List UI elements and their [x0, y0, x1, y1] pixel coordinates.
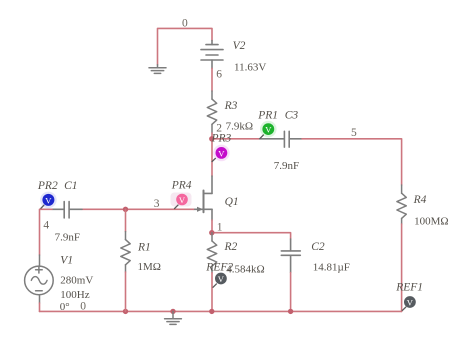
svg-text:7.9kΩ: 7.9kΩ [226, 120, 253, 132]
probe PR3 [212, 145, 230, 162]
junction ground bottom [170, 309, 175, 314]
wire bottom rail (net 0) [40, 310, 402, 312]
wire node 2 to C3 (net 2) [212, 138, 260, 140]
svg-text:V: V [265, 125, 272, 135]
wire V1 to bottom rail [39, 303, 41, 311]
source V1 [25, 255, 54, 303]
capacitor C1 [52, 202, 82, 218]
svg-text:V2: V2 [233, 40, 246, 52]
label REF1 [395, 282, 423, 294]
junction node 2 [209, 136, 214, 141]
label PR4 [171, 180, 192, 192]
value 14.81µF [313, 262, 350, 274]
svg-text:1MΩ: 1MΩ [138, 261, 161, 273]
svg-text:R2: R2 [224, 241, 238, 253]
svg-text:R4: R4 [413, 194, 427, 206]
value 280mV [60, 275, 93, 287]
junction node 3 [123, 207, 128, 212]
wire node 3 down to R1 [125, 209, 127, 231]
svg-text:PR3: PR3 [211, 133, 232, 145]
wire R2 to bottom rail [211, 273, 213, 312]
svg-text:V1: V1 [60, 255, 73, 267]
label Q1 [225, 196, 239, 208]
label R3 [224, 100, 238, 112]
svg-text:C1: C1 [64, 180, 77, 192]
wire node 2 down to Q1 drain [211, 139, 213, 176]
label PR1 [257, 110, 278, 122]
svg-text:280mV: 280mV [60, 275, 93, 287]
svg-text:5: 5 [351, 127, 357, 139]
svg-text:1: 1 [217, 222, 223, 234]
wire C3 to R4 (net 5) [302, 139, 402, 185]
wire gate rail: C1 to Q1 gate (net 3) [82, 208, 194, 210]
probe PR2 [40, 192, 57, 209]
node 0 label [182, 17, 188, 29]
probe PR1 [260, 121, 277, 139]
svg-text:PR4: PR4 [171, 180, 192, 192]
value 7.9kΩ [226, 120, 253, 132]
wire C2 to bottom rail [290, 273, 292, 312]
value 100Hz [60, 289, 89, 301]
svg-text:6: 6 [216, 69, 222, 81]
svg-text:7.9nF: 7.9nF [55, 231, 80, 243]
value 1MΩ [138, 261, 161, 273]
label C3 [285, 110, 299, 122]
probe PR4 [175, 194, 188, 209]
wire Q1 source to node 1 [211, 220, 213, 233]
label V2 [233, 40, 246, 52]
value 4.584kΩ [226, 264, 264, 276]
value 0 degrees [60, 301, 70, 313]
svg-text:Q1: Q1 [225, 196, 239, 208]
wire battery to R3 (net 6) [211, 68, 213, 91]
junction C2 bottom [288, 309, 293, 314]
transistor Q1 JFET [194, 176, 213, 220]
label C2 [311, 241, 325, 253]
probe REF2 [213, 273, 227, 288]
node 3 label [154, 198, 160, 210]
value 100MΩ [414, 216, 448, 228]
svg-text:V: V [218, 274, 225, 284]
wire top from ground to battery (net 0) [158, 28, 213, 64]
wire R4 to bottom rail [401, 224, 403, 311]
capacitor C3 [260, 131, 302, 147]
svg-text:7.9nF: 7.9nF [274, 160, 299, 172]
resistor R1 [121, 232, 130, 272]
probe REF1 [402, 296, 416, 311]
svg-text:100Hz: 100Hz [60, 289, 89, 301]
label V1 [60, 255, 73, 267]
battery V2 [201, 41, 223, 69]
resistor R2 [207, 233, 216, 273]
svg-text:14.81µF: 14.81µF [313, 262, 350, 274]
node 0 label near V1 [80, 301, 86, 313]
resistor R4 [397, 185, 406, 224]
capacitor C2 [281, 239, 300, 273]
label REF2 [205, 262, 233, 274]
wire node 1 to C2 (net 1) [212, 233, 291, 239]
wire R3 to node 2 [211, 133, 213, 139]
wire C1 to V1 (net 4) [40, 209, 53, 255]
probe PR4 halo [171, 193, 192, 207]
label C1 [64, 180, 77, 192]
value 7.9nF of C3 [274, 160, 299, 172]
svg-text:100MΩ: 100MΩ [414, 216, 448, 228]
node 6 label [216, 69, 222, 81]
svg-text:0: 0 [182, 17, 188, 29]
svg-text:R3: R3 [224, 100, 238, 112]
svg-text:V: V [179, 195, 186, 205]
svg-text:R1: R1 [137, 241, 151, 253]
label PR3 [211, 133, 232, 145]
value 7.9nF of C1 [55, 231, 80, 243]
label PR2 [37, 180, 58, 192]
svg-text:V: V [45, 195, 52, 205]
svg-text:V: V [218, 148, 225, 158]
svg-text:11.63V: 11.63V [234, 61, 266, 73]
label R2 [224, 241, 238, 253]
resistor R3 [207, 91, 216, 133]
label R4 [413, 194, 427, 206]
svg-text:C2: C2 [311, 241, 325, 253]
node 5 label [351, 127, 357, 139]
ground top-left [149, 65, 166, 74]
svg-text:PR2: PR2 [37, 180, 58, 192]
node 2 label [216, 123, 222, 135]
svg-text:4: 4 [43, 220, 49, 232]
junction node 1 [209, 230, 214, 235]
svg-text:3: 3 [154, 198, 160, 210]
svg-text:REF2: REF2 [205, 262, 233, 274]
label R1 [137, 241, 151, 253]
node 1 label [217, 222, 223, 234]
value 11.63V [234, 61, 266, 73]
ground bottom [165, 311, 182, 324]
svg-text:REF1: REF1 [395, 282, 423, 294]
node 4 label [43, 220, 49, 232]
junction R1 bottom [123, 309, 128, 314]
svg-text:V: V [407, 297, 414, 307]
svg-text:C3: C3 [285, 110, 299, 122]
svg-text:PR1: PR1 [257, 110, 278, 122]
wire R1 to bottom rail [125, 272, 127, 311]
junction R2 bottom [209, 309, 214, 314]
